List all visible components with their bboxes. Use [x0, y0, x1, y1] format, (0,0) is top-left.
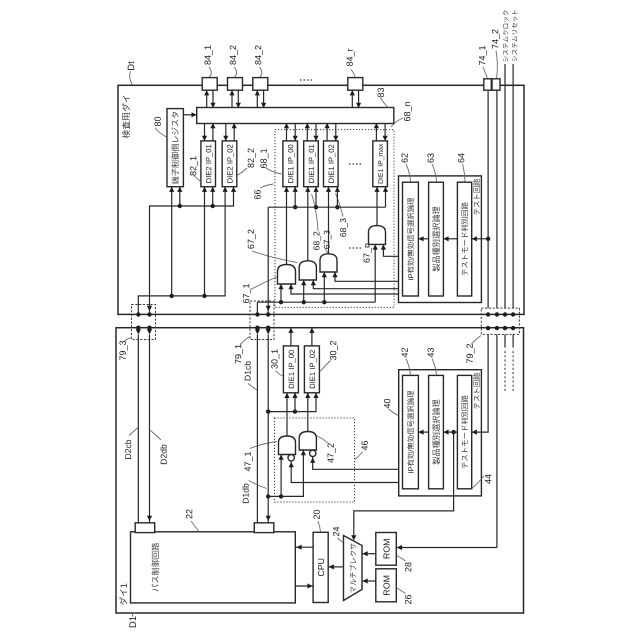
wire bus to 68_n right input (bus corner)	[385, 187, 387, 208]
arrow CPU to bus control (upper)	[296, 546, 313, 548]
wire pad 84_1 left	[206, 90, 208, 108]
label 68_1	[260, 149, 268, 168]
leader 63	[432, 164, 437, 182]
label 84_2	[255, 45, 263, 64]
bubble on gate 47_1 input	[288, 455, 294, 461]
leader Dt	[130, 71, 133, 85]
AND gate 47_2	[299, 432, 316, 451]
gate 47_2 bubble input from test logic 42	[313, 457, 399, 470]
leader 84_2	[260, 67, 262, 77]
arrow register 80 to bar 83	[183, 114, 196, 116]
IP box 82_1 DIE2 IP_01	[201, 141, 216, 187]
label 79_2	[466, 344, 474, 363]
text CPU	[318, 559, 324, 576]
wire bus to 68_3 right input	[336, 187, 338, 208]
gate 67_2 left input	[303, 280, 305, 302]
CPU box 20	[313, 532, 328, 602]
label 43	[427, 348, 433, 357]
D1cb line	[256, 335, 258, 523]
arrow mux to CPU	[328, 566, 343, 568]
arrow ROM26 to mux	[362, 580, 376, 582]
wire pad 84_2 right	[263, 90, 265, 108]
arrow 43 to 42 (lower)	[418, 431, 428, 433]
label 42	[401, 348, 407, 357]
label D2cb	[125, 440, 131, 459]
label 30_1	[271, 349, 279, 368]
wire 30_1 to die boundary	[290, 328, 292, 346]
gate 47_1 output to 30_1	[286, 393, 288, 436]
label system reset	[512, 10, 518, 61]
wire DIE2 box to bar right	[233, 123, 235, 141]
leader 26	[397, 588, 406, 594]
bus line gate left inputs (to 79_1 left column)	[257, 301, 375, 303]
pad on bus control (D1)	[254, 523, 273, 533]
leader 30_2	[320, 361, 331, 372]
AND gate 47_1	[279, 436, 296, 455]
leader 47_1	[250, 442, 277, 449]
test circuit block outline (lower)	[399, 370, 482, 496]
wire drop to 79_1 right column	[267, 207, 269, 314]
leader 43	[432, 359, 437, 376]
leader D1cb	[248, 384, 257, 391]
leader D2db	[151, 431, 162, 441]
leader 24	[338, 538, 344, 543]
AND gate 67_n	[369, 226, 386, 245]
label 84_1	[204, 45, 212, 64]
dotted block 66	[275, 130, 394, 308]
label 79_1	[235, 344, 243, 363]
leader 20	[318, 521, 321, 532]
label 22	[186, 509, 192, 518]
wire 30_2 to die boundary	[311, 328, 313, 346]
D2cb line	[137, 335, 139, 523]
system clock line down to 79_2	[504, 64, 506, 308]
label 44	[485, 474, 491, 484]
label 80	[154, 117, 160, 126]
leader 84_1	[209, 67, 211, 77]
wire bus to 30_1 right input	[294, 393, 296, 412]
arrow system line into 64 (upper)	[472, 238, 488, 240]
pad 84_1	[202, 78, 217, 91]
wire 80 right input	[179, 187, 181, 206]
label 82_2	[248, 148, 256, 167]
gate 67_1 right input from test logic	[291, 284, 399, 294]
label 66	[254, 190, 260, 199]
leader 67_3	[325, 249, 328, 254]
wire pad 84_r left	[351, 90, 353, 108]
arrow below 79_3 dot x=149.5	[147, 329, 152, 334]
label 83	[378, 88, 384, 97]
TSV connector 79_2	[481, 308, 519, 334]
pad 84_2	[228, 78, 243, 91]
leader 22	[191, 521, 199, 532]
text ROM 28	[383, 539, 389, 558]
dotted block 46	[275, 418, 355, 502]
label 30_2	[330, 341, 338, 360]
wire test logic to multiplexer select	[354, 432, 454, 539]
arrow 44 to 43 (lower)	[443, 431, 457, 433]
gate 47_1 bubble input from test logic 42	[291, 461, 399, 483]
leader 66	[260, 184, 274, 188]
arrow below 79_3 dot x=138.3	[136, 329, 141, 334]
upper die outline 検査用ダイ	[118, 85, 524, 314]
leader 84_r	[351, 70, 355, 78]
gate 67_2 output to box 68_2	[307, 187, 309, 261]
box 64 test mode determination circuit	[457, 182, 471, 296]
reset stub below 79_2	[512, 334, 514, 347]
gate 67_n output to box 68_n	[376, 187, 378, 226]
bus control circuit box 22 バス制御回路	[131, 532, 296, 603]
TSV connector 79_3	[132, 305, 156, 340]
gate 67_n left input	[374, 244, 376, 302]
reset dashed continuation	[512, 351, 514, 391]
multiplexer 24 マルチプレクサ	[344, 536, 363, 601]
leader 64	[463, 164, 466, 182]
wire bar to DIE2 box left	[225, 123, 227, 141]
register text	[171, 112, 179, 184]
label D2db	[160, 445, 166, 464]
wire bar to 68_1 right	[294, 123, 296, 141]
wire pad 84_r right	[358, 90, 360, 108]
pad 74_2	[492, 79, 500, 90]
bus line upper-right (to 79_1 right column)	[268, 206, 385, 208]
leader D2cb	[129, 428, 138, 436]
TSV connector 79_1	[250, 301, 274, 340]
leader 79_3	[125, 338, 132, 342]
label 63	[427, 153, 433, 162]
label 67_n	[363, 244, 371, 263]
wire system line 74_2 into ROM 28	[396, 547, 497, 549]
box 43 product type select logic	[429, 375, 444, 488]
leader 30_1	[276, 371, 283, 377]
gate 67_3 right input from test logic	[335, 272, 399, 281]
text bus control circuit	[152, 543, 160, 591]
text 62	[407, 198, 414, 280]
leader 44	[472, 476, 484, 489]
clock dashed continuation	[504, 351, 506, 391]
leader 28	[397, 556, 406, 562]
ROM box 26	[376, 569, 397, 602]
bus feeding left inputs of 80/82_1/82_2 (to 79_3 left column)	[138, 187, 225, 315]
label 47_1	[245, 452, 253, 471]
box 42 IP enable/disable select logic	[403, 375, 419, 488]
label 84_2	[230, 45, 238, 64]
wire bus to 68_1 right input	[294, 187, 296, 208]
text 68_3	[329, 145, 336, 183]
IP box 68_3 DIE1 IP_02	[324, 141, 339, 187]
box 62 IP enable/disable select logic	[403, 182, 419, 296]
leader D1db	[249, 481, 267, 489]
text 43	[432, 400, 440, 465]
leader D1	[132, 613, 135, 617]
label 26	[405, 595, 411, 604]
bus feeding right inputs of 80/82_1/82_2 (to 79_3 right column)	[150, 187, 234, 315]
leader 74_1	[483, 67, 488, 79]
label 46	[361, 441, 367, 450]
wire 47_1 left input	[280, 455, 282, 497]
pad 84_r	[348, 78, 363, 91]
system line 74_1 down to 79_2	[487, 90, 489, 308]
pad 74_1	[484, 79, 492, 90]
lower die name text	[119, 584, 127, 605]
wire 68_1 to bar left	[286, 123, 288, 141]
bubble on gate 47_2 input	[310, 450, 316, 456]
lower die outline ダイ1	[116, 328, 524, 613]
arrow below 79_1 dot x=257.4	[255, 329, 260, 334]
box 63 product type select logic	[429, 182, 444, 296]
text test circuit (upper)	[473, 179, 480, 215]
label 47_2	[327, 443, 335, 462]
text 82_1	[206, 145, 213, 183]
label 64	[458, 153, 464, 162]
wire 68_n to bar left	[375, 123, 377, 141]
system line 74_2 down to 79_2	[496, 90, 498, 308]
AND gate 67_1	[278, 265, 296, 285]
ellipsis between gates 67_3 and 67_n	[349, 247, 363, 249]
system line 74_2 below 79_2	[496, 334, 498, 547]
leader 79_2	[471, 336, 481, 345]
leader 84_2	[234, 67, 236, 77]
leader 67_n	[367, 245, 371, 248]
leader 68_3	[336, 194, 344, 217]
arrow system line into 44 (lower)	[472, 430, 488, 433]
arrow 63 to 62 (upper)	[418, 238, 428, 240]
text multiplexer	[350, 543, 356, 592]
wire pad 84_2 left	[256, 90, 258, 108]
leader 67_1	[251, 277, 277, 290]
arrow bus control to CPU (lower)	[296, 585, 313, 587]
text 82_2	[227, 145, 234, 183]
label 67_2	[248, 230, 256, 249]
leader 82_1	[193, 174, 201, 181]
label 84_r	[346, 49, 354, 66]
test circuit block outline (upper)	[399, 176, 482, 303]
pad 84_2	[253, 78, 268, 91]
D2db line	[149, 335, 151, 523]
gate 67_1 left input	[280, 284, 282, 302]
wire bar to DIE2 box left	[204, 123, 206, 141]
arrow 64 to 63 (upper)	[443, 238, 457, 240]
text 68_n	[378, 144, 384, 184]
label 82_1	[190, 156, 198, 175]
label 40	[384, 399, 390, 408]
IP box 30_2 DIE1 IP_02	[304, 346, 319, 393]
text 42	[407, 391, 414, 473]
gate 67_n right input from test logic	[383, 244, 398, 256]
label 74_2	[492, 29, 500, 48]
label 68_3	[340, 218, 348, 236]
system reset line down to 79_2	[512, 64, 514, 308]
IP box 68_2 DIE1 IP_01	[304, 141, 319, 187]
wire 82_1 left input	[204, 187, 206, 296]
gate 67_1 output to box 68_1	[286, 187, 288, 265]
box 44 test mode determination circuit	[457, 375, 471, 488]
wire 68_3 to bar left	[326, 123, 328, 141]
bus to 30_x right inputs (from D1db line)	[268, 393, 316, 412]
leader 74_2	[496, 51, 497, 79]
wire pad 84_2 right	[237, 90, 239, 108]
AND gate 67_3	[320, 254, 337, 272]
system line 74_1 below 79_2	[487, 334, 489, 431]
arrow below 79_1 dot x=268.2	[266, 329, 271, 334]
bus bar 83	[197, 108, 394, 124]
wire pad 84_2 left	[231, 90, 233, 108]
label 79_3	[119, 341, 127, 360]
wire DIE2 box to bar right	[212, 123, 214, 141]
label 24	[333, 527, 339, 536]
IP box 68_n DIE1 IP_max	[373, 141, 388, 187]
leader 40	[389, 409, 399, 416]
label 62	[401, 153, 407, 162]
label D1cb	[244, 361, 250, 380]
text test circuit (lower)	[473, 373, 480, 409]
text 30_1	[289, 350, 296, 388]
label 68_2	[313, 232, 321, 250]
leader 82_2	[238, 168, 248, 175]
gate left input bus (from D1db line)	[268, 450, 303, 496]
leader 80	[155, 128, 167, 137]
gate 67_3 output to box 68_3	[328, 187, 330, 254]
text 44	[461, 395, 468, 468]
clock stub below 79_2	[504, 334, 506, 347]
label 74_1	[479, 46, 487, 65]
text 30_2	[310, 350, 317, 388]
text 68_1	[288, 145, 295, 183]
IP box 68_1 DIE1 IP_00	[283, 141, 298, 187]
wire 80 left input	[171, 187, 173, 296]
register box 80 端子制御側レジスタ	[167, 109, 183, 187]
leader 68_1	[266, 168, 282, 174]
wire pad 84_1 right	[212, 90, 214, 108]
wire bar to 68_2 right	[315, 123, 317, 141]
wire bus to 68_2 right input	[315, 187, 317, 208]
text ROM 26	[383, 576, 389, 595]
leader 83	[381, 98, 390, 109]
AND gate 67_2	[299, 261, 316, 280]
text 68_2	[309, 145, 316, 183]
wire bar to 68_3 right	[335, 123, 337, 141]
leader 42	[406, 359, 411, 376]
gate 67_3 left input	[323, 272, 325, 302]
gate 47_2 output to 30_2	[307, 393, 309, 432]
leader 47_2	[317, 436, 329, 444]
leader 68_n	[391, 118, 403, 127]
ellipsis between pads	[300, 79, 313, 81]
text 64	[461, 202, 468, 275]
label D1	[129, 616, 136, 627]
label Dt	[128, 61, 135, 70]
leader 62	[406, 164, 411, 182]
arrow ROM28 to mux	[362, 553, 376, 555]
D1db line	[267, 335, 269, 523]
leader 46	[355, 452, 363, 460]
wire 68_2 to bar left	[306, 123, 308, 141]
label 28	[405, 562, 411, 571]
leader 67_2	[252, 251, 297, 263]
label D1db	[242, 484, 248, 503]
ROM box 28	[376, 533, 397, 566]
text 63	[432, 207, 440, 272]
upper die name text	[122, 96, 130, 139]
label system clock	[503, 11, 509, 62]
pad on bus control (D2)	[135, 523, 155, 533]
leader 79_1	[240, 337, 250, 345]
label 67_3	[324, 230, 332, 248]
leader 68_2	[312, 194, 319, 231]
wire bar to 68_n right	[384, 123, 386, 141]
gate 67_2 right input from test logic	[313, 280, 398, 289]
wire drop to 79_1 left column	[256, 302, 258, 314]
ellipsis between 68_3 and 68_n boxes	[349, 163, 363, 165]
label 68_n (right of bar)	[404, 102, 412, 121]
wire 82_1 right input	[212, 187, 214, 206]
IP box 30_1 DIE1 IP_00	[283, 346, 298, 393]
IP box 82_2 DIE2 IP_02	[222, 141, 237, 187]
label 20	[313, 510, 319, 519]
label 67_1	[243, 284, 251, 303]
